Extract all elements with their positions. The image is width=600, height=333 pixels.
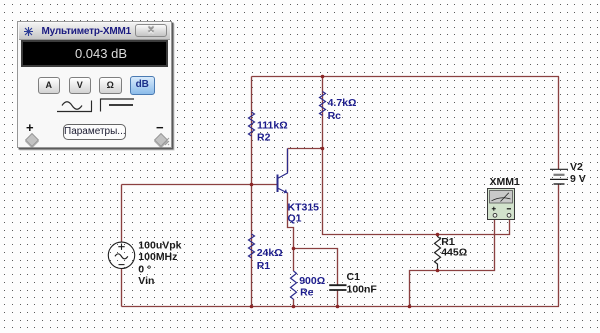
resistor R2 111k zigzag bbox=[249, 112, 255, 136]
wire V2 bottom lead bbox=[558, 185, 560, 307]
wave mode icons bbox=[54, 97, 144, 115]
resistor Re 900 zigzag bbox=[291, 271, 297, 299]
svg-text:111kΩ: 111kΩ bbox=[257, 120, 288, 132]
svg-text:9 V: 9 V bbox=[570, 173, 586, 185]
svg-text:C1: C1 bbox=[347, 271, 361, 283]
svg-text:100uVpk: 100uVpk bbox=[138, 240, 181, 252]
title bar bbox=[19, 23, 170, 40]
title icon bbox=[23, 26, 34, 37]
resize grip bbox=[160, 136, 170, 146]
wire collector to junction bbox=[288, 149, 323, 173]
wire Rc branch bbox=[322, 77, 324, 149]
svg-text:900Ω: 900Ω bbox=[299, 275, 325, 287]
svg-text:100MHz: 100MHz bbox=[138, 251, 177, 263]
source Vin circle bbox=[108, 242, 134, 268]
wire meter plus branch bbox=[410, 220, 495, 307]
svg-text:Re: Re bbox=[300, 287, 314, 299]
svg-text:0 °: 0 ° bbox=[138, 264, 151, 276]
transistor Q1 KT315 bbox=[278, 149, 288, 194]
svg-text:4.7kΩ: 4.7kΩ bbox=[328, 97, 357, 109]
capacitor C1 bbox=[329, 285, 346, 290]
svg-text:Rc: Rc bbox=[328, 110, 342, 122]
wire V2 top lead bbox=[558, 77, 560, 170]
wire R2 branch vertical bbox=[251, 77, 253, 307]
svg-text:24kΩ: 24kΩ bbox=[257, 247, 283, 259]
resistor R1 445 zigzag bbox=[435, 235, 441, 271]
junction dots bbox=[321, 75, 325, 79]
wire top rail bbox=[252, 76, 560, 78]
close button bbox=[135, 24, 167, 37]
wire meter minus branch bbox=[323, 149, 510, 235]
plus minus labels bbox=[26, 120, 34, 135]
svg-text:Vin: Vin bbox=[138, 275, 154, 287]
resistor Rc 4.7k zigzag bbox=[320, 92, 326, 116]
svg-text:445Ω: 445Ω bbox=[441, 247, 467, 259]
wire Re leads bbox=[293, 249, 295, 307]
parameters button bbox=[63, 124, 126, 140]
wire bottom rail bbox=[122, 306, 560, 308]
svg-text:R2: R2 bbox=[257, 132, 271, 144]
svg-text:R1: R1 bbox=[257, 260, 271, 272]
wire Vin bottom bbox=[121, 269, 123, 307]
wire Vin left loop bbox=[121, 185, 123, 243]
display bbox=[21, 40, 168, 67]
svg-text:100nF: 100nF bbox=[347, 284, 378, 296]
multimeter window panel bbox=[17, 21, 172, 148]
wire base horizontal bbox=[122, 184, 278, 186]
svg-text:V2: V2 bbox=[570, 161, 583, 173]
resistor R1 24k zigzag bbox=[249, 234, 255, 258]
wire C1 bottom bbox=[337, 290, 339, 307]
wire emitter path bbox=[288, 193, 294, 249]
multimeter icon XMM1 bbox=[488, 189, 515, 220]
wire emitter to C1 bbox=[294, 249, 338, 286]
svg-text:Q1: Q1 bbox=[288, 213, 302, 225]
terminal diamonds bbox=[25, 133, 39, 147]
svg-text:XMM1: XMM1 bbox=[490, 176, 520, 188]
battery V2 bbox=[550, 169, 568, 184]
buttons row bbox=[38, 77, 61, 94]
